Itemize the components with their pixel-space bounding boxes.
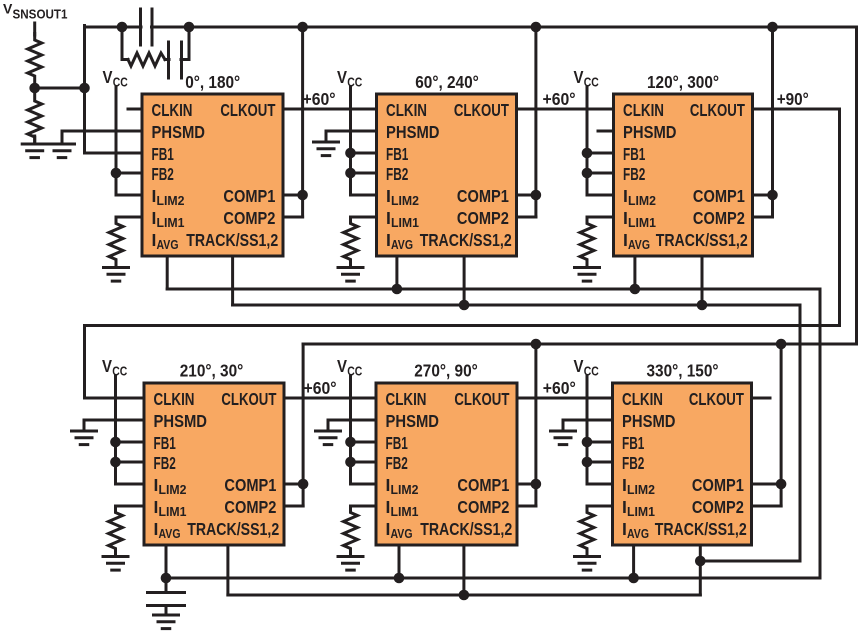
wire RC branch down	[121, 27, 124, 60]
svg-text:SNSOUT1: SNSOUT1	[13, 7, 68, 22]
junction U3 TRACK bus	[697, 300, 708, 311]
wire U5 COMP2	[517, 505, 536, 508]
wire U3 TRACK drop	[701, 256, 704, 305]
junction comp net A	[117, 22, 128, 33]
svg-text:AVG: AVG	[391, 526, 413, 541]
wire U4 FB1	[116, 441, 145, 444]
junction top rail U1 COMP	[297, 22, 308, 33]
wire clk down right	[838, 109, 841, 326]
wire U2 COMP1	[517, 194, 536, 197]
node VCC label U4	[102, 356, 128, 379]
wire U4 COMP1	[284, 483, 303, 486]
svg-text:+60°: +60°	[543, 378, 576, 398]
wire U2 PHSMD	[326, 130, 377, 133]
wire U5 CLKOUT to U6 CLKIN	[517, 397, 613, 400]
ground U1 ILIM1	[104, 268, 129, 282]
wire U4 CLKOUT to U5 CLKIN	[284, 397, 376, 400]
wire U6 TRACK drop	[699, 545, 702, 595]
svg-text:COMP1: COMP1	[457, 186, 509, 206]
svg-text:CLKIN: CLKIN	[386, 389, 427, 409]
wire U1 COMP drop	[301, 27, 304, 195]
wire U6 PHSMD	[563, 419, 613, 422]
resistor R1 (top of divider)	[28, 34, 42, 82]
wire U6 VCC rail	[586, 376, 589, 484]
svg-text:COMP2: COMP2	[693, 208, 745, 228]
junction U6 IAVG bus	[628, 573, 639, 584]
wire U4 ILIM2	[116, 483, 145, 486]
wire R3 to C2	[165, 58, 169, 61]
junction U4 IAVG bus	[161, 573, 172, 584]
junction U3 FB2-VCC	[582, 168, 593, 179]
svg-text:LIM1: LIM1	[157, 215, 185, 230]
ground U1 PHSMD	[50, 144, 75, 158]
wire U1 ILIM2	[116, 194, 142, 197]
wire U1 TRACK drop	[231, 256, 234, 305]
wire VSNSOUT1 lead	[33, 23, 36, 35]
wire clk down left	[83, 326, 86, 399]
wire U3 COMP1	[753, 194, 773, 197]
resistor R3 (comp)	[128, 53, 165, 66]
node VCC label U6	[574, 356, 600, 379]
junction U4 FB1-VCC	[110, 437, 121, 448]
wire U4 FB2	[116, 461, 145, 464]
junction bottom rail U6 COMP	[776, 339, 787, 350]
wire bus TRACK bottom	[228, 594, 700, 597]
wire U3 PHSMD stub	[598, 130, 614, 133]
IC U1 (0deg, 180deg)	[142, 94, 283, 256]
ground U6 ILIM1	[575, 557, 600, 571]
wire U4 ILIM1	[116, 505, 145, 508]
ground U3 ILIM1	[575, 268, 600, 282]
junction bottom rail U5 COMP	[531, 339, 542, 350]
junction U6 TRACK jog	[695, 556, 706, 567]
junction U6 FB1-VCC	[582, 437, 593, 448]
svg-text:FB2: FB2	[386, 453, 408, 473]
junction U2 TRACK bus	[459, 300, 470, 311]
junction U3 FB1-VCC	[582, 148, 593, 159]
label +60 (U4-U5)	[304, 378, 337, 398]
wire U5 VCC rail	[349, 376, 352, 484]
wire U6 COMP2 up	[780, 484, 783, 506]
label +90 (U3-U4)	[777, 89, 809, 109]
wire U6 CLKOUT stub	[752, 397, 771, 400]
wire U1 PHSMD	[62, 130, 142, 133]
svg-text:COMP2: COMP2	[692, 497, 744, 517]
wire U1 ILIM1	[116, 216, 142, 219]
svg-text:FB2: FB2	[154, 453, 176, 473]
wire U5 IAVG drop	[398, 545, 401, 578]
wire U6 COMP drop	[780, 344, 783, 484]
wire bus TRACK top	[233, 304, 800, 307]
wire U4 COMP drop	[302, 344, 305, 484]
junction U4 COMP1	[298, 479, 309, 490]
svg-text:+90°: +90°	[777, 89, 809, 109]
capacitor C2 (comp)	[169, 42, 182, 78]
wire U2 ILIM1	[351, 216, 377, 219]
wire C3 to gnd	[165, 606, 168, 614]
wire U2 FB2	[351, 172, 377, 175]
svg-text:LIM2: LIM2	[627, 482, 655, 497]
wire U6 FB1	[587, 441, 613, 444]
svg-text:PHSMD: PHSMD	[386, 411, 440, 431]
wire U5 FB1	[351, 441, 377, 444]
svg-text:CLKOUT: CLKOUT	[454, 100, 509, 120]
wire U4 COMP2 up	[302, 484, 305, 506]
wire U1 FB2	[116, 172, 142, 175]
svg-text:LIM1: LIM1	[628, 215, 656, 230]
wire clk return	[85, 324, 840, 327]
svg-text:270°, 90°: 270°, 90°	[414, 361, 478, 381]
resistor R ILIM1 U6	[580, 506, 594, 554]
wire U1 COMP2	[283, 216, 303, 219]
svg-text:CLKOUT: CLKOUT	[220, 100, 275, 120]
svg-text:V: V	[574, 356, 584, 376]
wire U3 COMP2	[753, 216, 773, 219]
wire IAVG bus right down	[819, 289, 822, 578]
svg-text:CLKIN: CLKIN	[623, 100, 664, 120]
node VCC label U1	[103, 67, 129, 90]
ground U5 ILIM1	[338, 557, 363, 571]
wire U5 PHSMD gnd stub	[327, 420, 330, 430]
svg-text:PHSMD: PHSMD	[386, 122, 440, 142]
svg-text:LIM1: LIM1	[391, 215, 419, 230]
junction comp net B	[184, 22, 195, 33]
svg-text:CLKIN: CLKIN	[622, 389, 663, 409]
wire U5 PHSMD	[328, 419, 376, 422]
svg-text:V: V	[102, 356, 112, 376]
junction U4 FB2-VCC	[110, 457, 121, 468]
wire U5 COMP drop	[534, 344, 537, 484]
junction U6 COMP1	[776, 479, 787, 490]
junction U3 IAVG bus	[630, 284, 641, 295]
wire U2 FB1	[351, 152, 377, 155]
svg-text:COMP2: COMP2	[457, 497, 509, 517]
wire U6 ILIM2	[587, 483, 613, 486]
svg-text:+60°: +60°	[303, 89, 336, 109]
phase label U6	[647, 361, 719, 381]
node VSNSOUT1 label	[3, 0, 68, 21]
wire U3 FB2	[587, 172, 614, 175]
wire R2 to ground	[33, 136, 36, 142]
svg-text:CLKOUT: CLKOUT	[690, 100, 745, 120]
wire U6 FB2	[587, 461, 613, 464]
svg-text:LIM2: LIM2	[159, 482, 187, 497]
svg-text:LIM1: LIM1	[159, 504, 187, 519]
svg-text:CLKIN: CLKIN	[152, 100, 193, 120]
resistor R2 (bottom of divider)	[28, 95, 42, 143]
svg-text:PHSMD: PHSMD	[152, 122, 206, 142]
svg-text:LIM2: LIM2	[391, 193, 419, 208]
wire U4 PHSMD	[84, 419, 144, 422]
wire U5 FB2	[351, 461, 377, 464]
wire U2 CLKOUT to U3 CLKIN	[517, 108, 614, 111]
junction U2 COMP1	[531, 190, 542, 201]
svg-text:TRACK/SS1,2: TRACK/SS1,2	[656, 230, 748, 250]
phase label U2	[415, 72, 479, 92]
wire U2 PHSMD gnd stub	[325, 131, 328, 141]
IC U5 (270deg, 90deg)	[376, 383, 517, 545]
svg-text:FB1: FB1	[152, 144, 174, 164]
svg-text:V: V	[103, 67, 113, 87]
wire RC branch lead	[122, 58, 128, 61]
wire U1 VCC rail	[115, 87, 118, 195]
wire U5 ILIM1	[351, 505, 377, 508]
junction U3 COMP1	[767, 190, 778, 201]
IC U4 (210deg, 30deg)	[144, 383, 284, 545]
svg-text:LIM2: LIM2	[157, 193, 185, 208]
svg-text:LIM2: LIM2	[391, 482, 419, 497]
resistor R ILIM1 U4	[109, 506, 123, 554]
resistor R ILIM1 U1	[109, 217, 123, 265]
wire U3 VCC rail	[586, 87, 589, 195]
svg-text:LIM1: LIM1	[391, 504, 419, 519]
wire top COMP rail left	[85, 26, 123, 29]
wire U2 COMP drop	[534, 27, 537, 195]
node VCC label U3	[574, 67, 600, 90]
svg-text:FB2: FB2	[623, 164, 645, 184]
wire clk to U4 CLKIN	[85, 397, 145, 400]
svg-text:FB1: FB1	[154, 433, 176, 453]
wire rail to FB1 U1	[85, 152, 143, 155]
junction top rail U2 COMP	[531, 22, 542, 33]
svg-text:FB1: FB1	[386, 144, 408, 164]
phase label U3	[647, 72, 719, 92]
IC U3 (120deg, 300deg)	[614, 94, 753, 256]
svg-text:210°, 30°: 210°, 30°	[180, 361, 244, 381]
wire U3 FB1	[587, 152, 614, 155]
svg-text:FB2: FB2	[152, 164, 174, 184]
wire U6 PHSMD gnd stub	[562, 420, 565, 430]
svg-text:PHSMD: PHSMD	[623, 122, 677, 142]
wire top COMP rail	[189, 26, 857, 29]
wire TRACK jog	[700, 560, 800, 563]
phase label U5	[414, 361, 478, 381]
junction U5 FB2-VCC	[345, 457, 356, 468]
svg-text:FB1: FB1	[386, 433, 408, 453]
ground U2 ILIM1	[338, 268, 363, 282]
wire U1 CLKIN stub	[128, 108, 142, 111]
svg-text:AVG: AVG	[159, 526, 181, 541]
svg-text:CLKIN: CLKIN	[154, 389, 195, 409]
wire U6 ILIM1	[587, 505, 613, 508]
svg-text:CLKOUT: CLKOUT	[454, 389, 509, 409]
wire U4 IAVG drop	[165, 545, 168, 578]
junction U6 FB2-VCC	[582, 457, 593, 468]
ground U5 PHSMD	[316, 431, 341, 445]
svg-text:330°, 150°: 330°, 150°	[647, 361, 719, 381]
svg-text:PHSMD: PHSMD	[154, 411, 208, 431]
wire U2 TRACK drop	[463, 256, 466, 305]
svg-text:COMP2: COMP2	[223, 208, 275, 228]
svg-text:FB1: FB1	[622, 433, 644, 453]
wire U1 PHSMD gnd stub	[61, 131, 64, 142]
junction U5 TRACK bus	[459, 590, 470, 601]
junction top rail U3 COMP	[767, 22, 778, 33]
ground IAVG bus	[154, 615, 179, 629]
svg-text:CLKOUT: CLKOUT	[221, 389, 276, 409]
label +60 (U2-U3)	[543, 89, 576, 109]
wire U2 COMP2 up	[534, 195, 537, 217]
IC U2 (60deg, 240deg)	[377, 94, 517, 256]
svg-text:FB1: FB1	[623, 144, 645, 164]
junction U1 FB2-VCC	[111, 168, 122, 179]
wire U3 ILIM2	[587, 194, 614, 197]
wire U2 IAVG drop	[395, 256, 398, 289]
junction U1 COMP1	[297, 190, 308, 201]
wire U4 TRACK drop	[226, 545, 229, 595]
resistor R ILIM1 U5	[344, 506, 358, 554]
svg-text:AVG: AVG	[157, 237, 179, 252]
wire U1 CLKOUT to U2 CLKIN	[283, 108, 377, 111]
svg-text:CLKOUT: CLKOUT	[689, 389, 744, 409]
svg-text:0°, 180°: 0°, 180°	[185, 72, 240, 92]
svg-text:TRACK/SS1,2: TRACK/SS1,2	[186, 230, 278, 250]
wire U6 COMP1	[752, 483, 782, 486]
svg-text:AVG: AVG	[391, 237, 413, 252]
ground U6 PHSMD	[551, 431, 576, 445]
svg-text:60°, 240°: 60°, 240°	[415, 72, 479, 92]
svg-text:COMP1: COMP1	[457, 475, 509, 495]
wire RC branch up	[188, 27, 191, 60]
wire U3 COMP drop	[771, 27, 774, 195]
wire U2 COMP2	[517, 216, 536, 219]
phase label U4	[180, 361, 244, 381]
wire U3 IAVG drop	[633, 256, 636, 289]
wire U4 PHSMD gnd stub	[83, 420, 86, 430]
svg-text:COMP1: COMP1	[224, 475, 276, 495]
label +60 (U1-U2)	[303, 89, 336, 109]
svg-text:CLKIN: CLKIN	[386, 100, 427, 120]
wire TRACK bus right down	[799, 305, 802, 561]
svg-text:FB2: FB2	[386, 164, 408, 184]
wire cap C1 left lead	[122, 26, 141, 29]
ground U2 PHSMD	[314, 142, 339, 156]
svg-text:AVG: AVG	[627, 526, 649, 541]
svg-text:120°, 300°: 120°, 300°	[647, 72, 719, 92]
wire U3 ILIM1	[587, 216, 614, 219]
wire U1 COMP2 up	[301, 195, 304, 217]
wire COMP right down	[855, 27, 858, 344]
svg-text:COMP1: COMP1	[693, 186, 745, 206]
wire U3 CLKOUT right	[753, 108, 840, 111]
svg-text:V: V	[337, 67, 347, 87]
svg-text:+60°: +60°	[304, 378, 337, 398]
wire bottom COMP rail	[303, 343, 856, 346]
capacitor C1	[141, 9, 153, 45]
wire rail vertical	[83, 26, 86, 154]
svg-text:V: V	[574, 67, 584, 87]
svg-text:COMP1: COMP1	[692, 475, 744, 495]
svg-text:TRACK/SS1,2: TRACK/SS1,2	[420, 519, 512, 539]
svg-text:+60°: +60°	[543, 89, 576, 109]
wire C2 to up	[181, 58, 189, 61]
svg-text:FB2: FB2	[622, 453, 644, 473]
node VCC label U2	[337, 67, 363, 90]
wire bus IAVG bottom	[166, 577, 820, 580]
wire U5 ILIM2	[351, 483, 377, 486]
resistor R ILIM1 U2	[344, 217, 358, 265]
svg-text:V: V	[3, 0, 13, 16]
wire cap C3 stub	[165, 578, 168, 592]
junction U2 FB2-VCC	[345, 168, 356, 179]
wire U4 VCC rail	[114, 376, 117, 484]
junction U2 IAVG bus	[392, 284, 403, 295]
junction U5 FB1-VCC	[345, 437, 356, 448]
capacitor C3 (IAVG bypass)	[148, 593, 185, 606]
wire bus IAVG top	[167, 288, 820, 291]
svg-text:V: V	[337, 356, 347, 376]
wire U1 COMP1	[283, 194, 303, 197]
junction U2 FB1-VCC	[345, 148, 356, 159]
svg-text:PHSMD: PHSMD	[622, 411, 676, 431]
junction divider node	[29, 83, 40, 94]
wire U5 COMP1	[517, 483, 536, 486]
wire U5 TRACK drop	[462, 545, 465, 595]
phase label U1	[185, 72, 240, 92]
wire U6 COMP2	[752, 505, 782, 508]
wire U3 COMP2 up	[771, 195, 774, 217]
svg-text:LIM2: LIM2	[628, 193, 656, 208]
ground U4 ILIM1	[103, 557, 128, 571]
svg-text:LIM1: LIM1	[627, 504, 655, 519]
IC U6 (330deg, 150deg)	[613, 383, 752, 545]
wire U1 IAVG drop	[166, 256, 169, 289]
junction U5 IAVG bus	[394, 573, 405, 584]
svg-text:TRACK/SS1,2: TRACK/SS1,2	[187, 519, 279, 539]
junction U5 COMP1	[531, 479, 542, 490]
wire U2 ILIM2	[351, 194, 377, 197]
svg-text:COMP2: COMP2	[224, 497, 276, 517]
ground U4 PHSMD	[72, 431, 97, 445]
wire cap C1 right lead	[152, 26, 190, 29]
ground divider	[22, 144, 47, 158]
wire U4 COMP2	[284, 505, 303, 508]
wire divider node to rail	[35, 87, 85, 90]
svg-text:TRACK/SS1,2: TRACK/SS1,2	[655, 519, 747, 539]
wire U6 IAVG drop	[632, 545, 635, 578]
wire U5 COMP2 up	[534, 484, 537, 506]
label +60 (U5-U6)	[543, 378, 576, 398]
junction rail node	[79, 83, 90, 94]
wire U2 VCC rail	[349, 87, 352, 195]
svg-text:COMP2: COMP2	[457, 208, 509, 228]
svg-text:AVG: AVG	[628, 237, 650, 252]
node VCC label U5	[337, 356, 363, 379]
svg-text:TRACK/SS1,2: TRACK/SS1,2	[420, 230, 512, 250]
resistor R ILIM1 U3	[580, 217, 594, 265]
svg-text:COMP1: COMP1	[223, 186, 275, 206]
